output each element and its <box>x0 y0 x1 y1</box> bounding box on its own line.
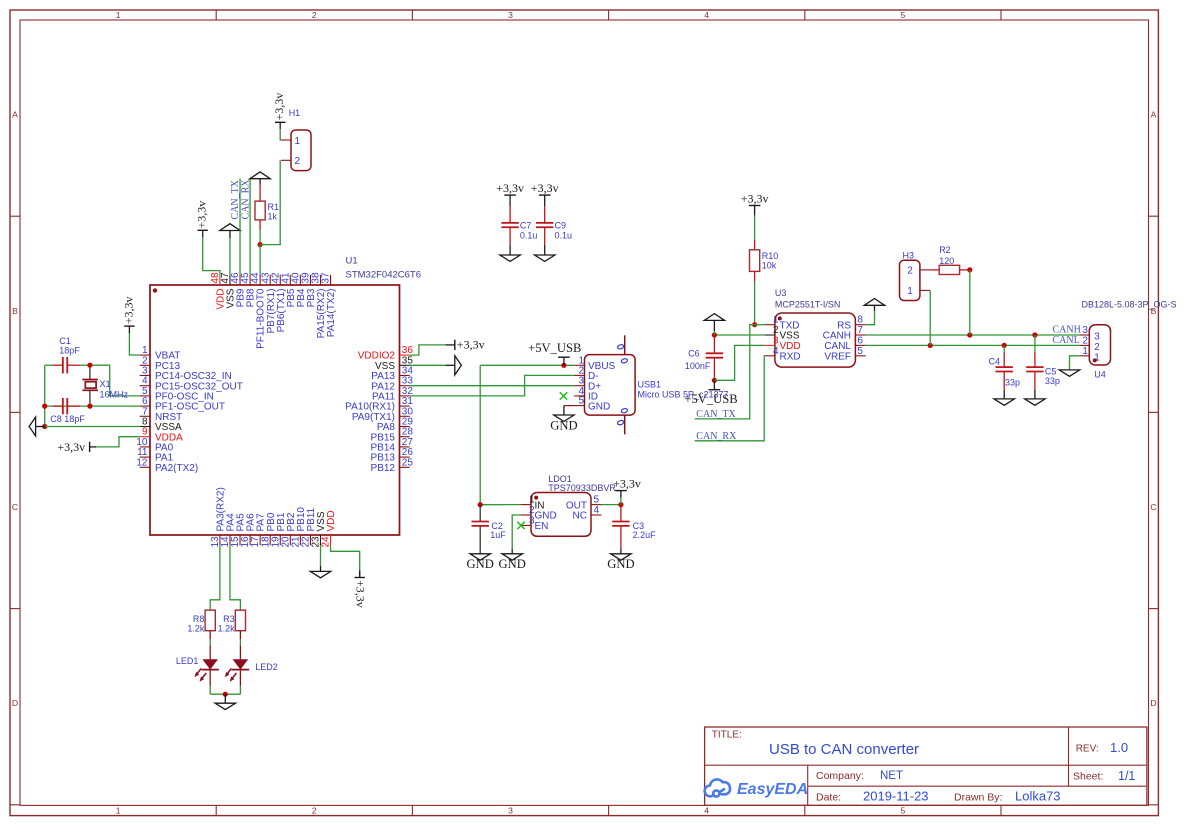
svg-text:USB1: USB1 <box>638 379 662 389</box>
svg-text:R1: R1 <box>268 202 280 212</box>
svg-text:USB to CAN converter: USB to CAN converter <box>769 741 919 758</box>
svg-text:2: 2 <box>773 325 779 336</box>
svg-text:4: 4 <box>704 806 709 816</box>
svg-text:1: 1 <box>907 286 913 297</box>
svg-text:12: 12 <box>136 457 148 468</box>
svg-text:2: 2 <box>529 505 535 516</box>
svg-text:GND: GND <box>499 557 526 571</box>
svg-text:VREF: VREF <box>824 352 851 363</box>
svg-text:1: 1 <box>529 495 535 506</box>
svg-text:A: A <box>12 110 18 120</box>
svg-text:2: 2 <box>1082 336 1088 347</box>
svg-text:1uF: 1uF <box>490 530 506 540</box>
svg-text:37: 37 <box>321 272 332 284</box>
svg-text:C4: C4 <box>989 357 1001 367</box>
svg-text:+3,3v: +3,3v <box>531 181 559 195</box>
svg-text:2: 2 <box>907 266 913 277</box>
svg-text:CANL: CANL <box>824 341 851 352</box>
svg-text:C6: C6 <box>688 348 700 358</box>
svg-text:VSS: VSS <box>780 331 800 342</box>
svg-text:VDD: VDD <box>326 510 337 531</box>
svg-text:PB12: PB12 <box>371 463 396 474</box>
svg-text:1.2k: 1.2k <box>187 624 205 634</box>
svg-text:C5: C5 <box>1045 366 1057 376</box>
svg-text:MCP2551T-I/SN: MCP2551T-I/SN <box>775 299 841 309</box>
svg-text:3: 3 <box>1094 332 1100 343</box>
svg-text:GND: GND <box>607 557 634 571</box>
svg-text:Sheet:: Sheet: <box>1073 771 1103 783</box>
svg-text:B: B <box>12 306 18 316</box>
svg-text:1.2k: 1.2k <box>218 624 236 634</box>
svg-text:REV:: REV: <box>1076 744 1099 755</box>
svg-text:1: 1 <box>116 806 121 816</box>
svg-text:Company:: Company: <box>816 770 864 782</box>
svg-text:5: 5 <box>901 806 906 816</box>
svg-text:CANL: CANL <box>1053 335 1080 346</box>
svg-text:10k: 10k <box>762 261 777 271</box>
svg-text:LED2: LED2 <box>255 662 278 672</box>
svg-text:LED1: LED1 <box>176 656 199 666</box>
svg-text:0.1u: 0.1u <box>555 230 573 240</box>
svg-text:1.0: 1.0 <box>1110 740 1128 755</box>
svg-text:4: 4 <box>773 346 779 357</box>
svg-text:2.2uF: 2.2uF <box>633 530 657 540</box>
svg-text:33p: 33p <box>1005 377 1020 387</box>
svg-text:+5V_USB: +5V_USB <box>528 341 581 355</box>
svg-text:C: C <box>12 502 18 512</box>
svg-text:EN: EN <box>535 521 549 532</box>
svg-text:4: 4 <box>594 505 600 516</box>
svg-text:1: 1 <box>1082 346 1088 357</box>
svg-text:GND: GND <box>550 418 577 432</box>
svg-text:5: 5 <box>594 495 600 506</box>
svg-text:R3: R3 <box>223 614 235 624</box>
svg-text:C8 18pF: C8 18pF <box>50 414 85 424</box>
svg-text:33p: 33p <box>1045 376 1060 386</box>
svg-text:H3: H3 <box>903 250 915 260</box>
svg-text:5: 5 <box>579 396 585 407</box>
svg-text:+3,3v: +3,3v <box>741 191 769 205</box>
svg-text:1: 1 <box>295 136 301 147</box>
svg-text:1: 1 <box>116 10 121 20</box>
svg-text:5: 5 <box>901 10 906 20</box>
svg-text:CANH: CANH <box>1053 325 1081 336</box>
svg-text:EasyEDA: EasyEDA <box>737 781 808 798</box>
svg-text:IN: IN <box>535 500 545 511</box>
svg-text:TPS70933DBVR: TPS70933DBVR <box>548 483 616 493</box>
svg-text:Lolka73: Lolka73 <box>1015 789 1061 804</box>
svg-text:+3,3v: +3,3v <box>457 338 485 352</box>
svg-text:GND: GND <box>467 557 494 571</box>
svg-text:R2: R2 <box>939 245 951 255</box>
svg-text:16MHz: 16MHz <box>100 389 129 399</box>
svg-text:25: 25 <box>402 457 414 468</box>
svg-text:NC: NC <box>573 511 587 522</box>
svg-text:X1: X1 <box>100 379 111 389</box>
svg-text:2: 2 <box>295 156 301 167</box>
svg-text:D: D <box>1150 698 1156 708</box>
svg-text:100nF: 100nF <box>685 361 711 371</box>
svg-text:2: 2 <box>1094 342 1100 353</box>
svg-text:TITLE:: TITLE: <box>712 730 742 741</box>
svg-text:CAN_RX: CAN_RX <box>696 431 737 442</box>
svg-text:1/1: 1/1 <box>1118 769 1135 783</box>
svg-text:C: C <box>1150 502 1156 512</box>
svg-text:U1: U1 <box>346 256 358 267</box>
svg-text:18pF: 18pF <box>59 346 80 356</box>
svg-text:+3,3v: +3,3v <box>613 476 641 490</box>
svg-text:CAN_RX: CAN_RX <box>240 179 251 220</box>
svg-text:5: 5 <box>857 346 863 357</box>
svg-text:6: 6 <box>857 335 863 346</box>
svg-text:3: 3 <box>773 335 779 346</box>
svg-text:+3,3v: +3,3v <box>195 201 209 229</box>
svg-text:3: 3 <box>1082 325 1088 336</box>
svg-text:C9: C9 <box>555 221 567 231</box>
svg-text:VDD: VDD <box>780 341 801 352</box>
svg-text:C1: C1 <box>59 336 71 346</box>
svg-text:2: 2 <box>312 806 317 816</box>
svg-text:H1: H1 <box>289 108 301 118</box>
svg-text:OUT: OUT <box>566 500 587 511</box>
svg-text:0.1u: 0.1u <box>520 230 538 240</box>
svg-text:+3,3v: +3,3v <box>121 297 135 325</box>
svg-text:+3,3v: +3,3v <box>272 93 286 121</box>
svg-text:+3,3v: +3,3v <box>354 580 368 608</box>
svg-text:D: D <box>12 698 18 708</box>
svg-text:120: 120 <box>939 256 954 266</box>
svg-text:R10: R10 <box>762 251 779 261</box>
svg-text:A: A <box>1151 110 1157 120</box>
svg-text:1k: 1k <box>268 212 278 222</box>
svg-text:2019-11-23: 2019-11-23 <box>863 789 929 804</box>
svg-text:+3,3v: +3,3v <box>57 440 85 454</box>
svg-text:PA2(TX2): PA2(TX2) <box>155 463 198 474</box>
svg-text:3: 3 <box>508 10 513 20</box>
svg-text:U3: U3 <box>775 288 787 298</box>
svg-text:GND: GND <box>535 511 557 522</box>
svg-text:C7: C7 <box>520 221 532 231</box>
svg-text:GND: GND <box>588 401 610 412</box>
svg-text:RXD: RXD <box>780 352 801 363</box>
svg-text:3: 3 <box>529 515 535 526</box>
svg-text:CAN_TX: CAN_TX <box>696 409 736 420</box>
svg-text:4: 4 <box>704 10 709 20</box>
svg-text:2: 2 <box>312 10 317 20</box>
svg-text:Drawn By:: Drawn By: <box>954 791 1002 803</box>
svg-text:CANH: CANH <box>823 331 851 342</box>
svg-text:U4: U4 <box>1094 370 1106 380</box>
svg-text:+3,3v: +3,3v <box>496 181 524 195</box>
svg-text:7: 7 <box>857 325 863 336</box>
svg-text:NET: NET <box>880 770 903 782</box>
svg-text:DB128L-5.08-3P_OG-S: DB128L-5.08-3P_OG-S <box>1082 300 1177 310</box>
svg-text:PA14(TX2): PA14(TX2) <box>326 289 337 338</box>
svg-text:STM32F042C6T6: STM32F042C6T6 <box>346 270 422 281</box>
svg-text:+5V_USB: +5V_USB <box>684 392 737 406</box>
svg-text:Date:: Date: <box>816 791 841 803</box>
svg-text:3: 3 <box>508 806 513 816</box>
svg-text:R8: R8 <box>193 614 205 624</box>
